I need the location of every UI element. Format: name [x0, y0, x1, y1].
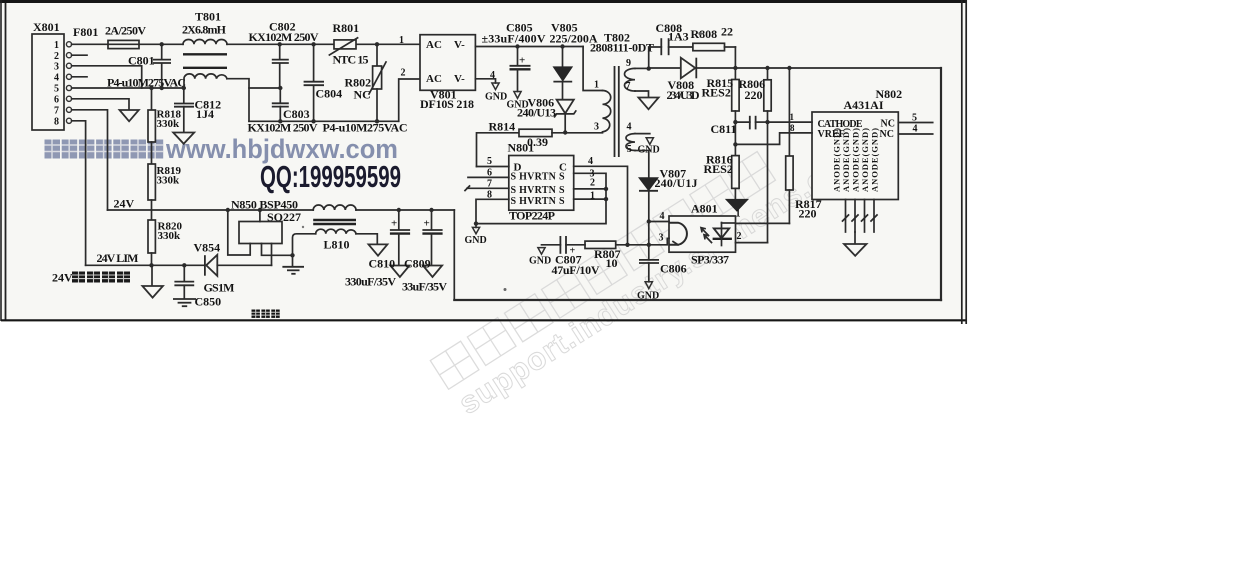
- N801 pin6 stub: [468, 176, 509, 178]
- svg-text:ANODE(GND): ANODE(GND): [841, 128, 851, 192]
- svg-text:24V: 24V: [114, 197, 135, 211]
- svg-text:C810: C810: [369, 257, 396, 271]
- N801 pin4 control wire: [574, 166, 628, 245]
- transformer T802 aux winding: [626, 134, 635, 151]
- svg-text:+: +: [519, 55, 525, 67]
- earth ground N850: [292, 255, 294, 266]
- capacitor C807: [559, 236, 561, 254]
- svg-text:A801: A801: [691, 202, 718, 216]
- svg-text:+: +: [424, 218, 430, 230]
- capacitor C809: [429, 208, 433, 212]
- svg-text:C809: C809: [404, 257, 431, 271]
- small scan specks: [698, 32, 701, 35]
- A801 pin1 wire: [736, 222, 790, 224]
- svg-text:V854: V854: [194, 241, 221, 255]
- ground R816 filled: [726, 199, 748, 211]
- capacitor C801: [161, 44, 163, 59]
- svg-text:4: 4: [490, 70, 495, 81]
- gnd arrow bridge pin4: [492, 83, 499, 90]
- wire pin9: [635, 67, 649, 69]
- V807 wire down to C806: [648, 222, 650, 260]
- X801 pin circles: [66, 42, 71, 124]
- svg-text:2A/250V: 2A/250V: [105, 24, 146, 38]
- svg-text:240/U13: 240/U13: [517, 106, 556, 120]
- svg-text:S HVRTN S: S HVRTN S: [511, 185, 565, 196]
- wire bus to bridge pin2: [399, 79, 420, 121]
- border frame: left double line: [0, 0, 2, 321]
- resistor R820: [148, 220, 155, 253]
- wire pin7: [72, 110, 108, 210]
- wire L810 bottom to gnd: [356, 234, 377, 245]
- transformer T802 core: [614, 66, 616, 157]
- capacitor C808: [660, 38, 662, 55]
- svg-text:24V: 24V: [52, 271, 73, 285]
- ground below LIM: [151, 265, 153, 286]
- capacitor C811: [735, 121, 749, 123]
- svg-text:7: 7: [54, 106, 59, 117]
- svg-text:8: 8: [54, 117, 59, 128]
- resistor R815: [734, 68, 736, 80]
- svg-text:2: 2: [54, 51, 59, 62]
- resistor R808: [693, 43, 725, 50]
- svg-text:ANODE(GND): ANODE(GND): [860, 128, 870, 192]
- svg-text:F801: F801: [73, 25, 98, 39]
- svg-text:+: +: [391, 218, 397, 230]
- A801 light arrows: [701, 228, 709, 236]
- wire aux pin5 down: [635, 150, 649, 152]
- ground N802: [854, 232, 856, 244]
- svg-text:C850: C850: [195, 295, 222, 309]
- svg-text:4: 4: [588, 156, 593, 167]
- MOSFET module N850: [239, 222, 282, 244]
- svg-text:AC: AC: [426, 73, 442, 85]
- inductor L810 top winding: [313, 205, 356, 210]
- capacitor C812: [183, 88, 185, 103]
- wire pin1 to fuse: [72, 43, 108, 45]
- wire pin6: [72, 99, 129, 110]
- resistor R818: [151, 88, 153, 110]
- svg-text:330k: 330k: [158, 230, 182, 242]
- svg-text:T801: T801: [195, 10, 221, 24]
- svg-text:X801: X801: [33, 20, 60, 34]
- node R818 top: [149, 86, 153, 90]
- N850 top pin: [259, 210, 261, 222]
- svg-text:GND: GND: [485, 92, 507, 103]
- wire R819-R820 crossing 24V rail: [151, 200, 153, 220]
- wire pin3: [72, 66, 142, 88]
- svg-text:DF10S 218: DF10S 218: [420, 97, 474, 111]
- svg-text:R814: R814: [489, 120, 516, 134]
- N801 pin7 stub: [467, 187, 509, 189]
- wire bridge V- bottom to GND stub: [475, 79, 495, 83]
- svg-text:5: 5: [487, 156, 492, 167]
- svg-text:C806: C806: [660, 262, 687, 276]
- blue watermark: chinese chars 湖北家电维修网: [45, 140, 164, 159]
- svg-text:C811: C811: [711, 122, 737, 136]
- wire T801 out to step: [227, 79, 249, 122]
- svg-text:RES2: RES2: [702, 86, 731, 100]
- svg-text:1: 1: [594, 80, 599, 91]
- ground C812: [173, 133, 194, 144]
- N850 right pin jog: [262, 244, 293, 256]
- connector X801: [32, 34, 64, 130]
- svg-text:47uF/10V: 47uF/10V: [552, 263, 600, 277]
- wire aux pin4 to gnd arrow: [635, 133, 650, 135]
- choke T801 core bars: [183, 53, 227, 55]
- N802 vref jog wire: [735, 133, 812, 145]
- svg-text:4: 4: [913, 124, 918, 135]
- bottom bus: [454, 299, 941, 301]
- svg-text:8: 8: [790, 123, 795, 133]
- 24V LIM rail: [86, 264, 205, 266]
- svg-text:5: 5: [912, 113, 917, 124]
- wire top line corner to primary pin1: [583, 47, 602, 91]
- svg-text:7: 7: [626, 81, 631, 92]
- svg-text:220: 220: [745, 88, 763, 102]
- capacitor C802: [278, 42, 282, 46]
- svg-text:1: 1: [590, 191, 595, 202]
- svg-text:1: 1: [399, 35, 404, 46]
- wire R820 to LIM rail: [151, 253, 153, 265]
- choke T801 top winding: [183, 40, 227, 45]
- right rail down: [940, 68, 942, 300]
- svg-text:330k: 330k: [157, 175, 181, 187]
- wire R818-R819: [151, 142, 153, 164]
- wire pin2 stub: [72, 54, 87, 56]
- svg-text:330uF/35V: 330uF/35V: [345, 275, 396, 289]
- svg-text:N801: N801: [508, 141, 535, 155]
- svg-text:QQ:199959599: QQ:199959599: [260, 159, 401, 194]
- N801 pin1 wire: [574, 198, 606, 200]
- svg-text:4: 4: [660, 211, 665, 222]
- resistor R807: [585, 241, 616, 248]
- svg-text:4: 4: [627, 122, 632, 133]
- X801 pin numbers 1-8: [54, 40, 59, 128]
- N802 pin1 cathode wire: [768, 121, 813, 123]
- border frame: right double line: [961, 0, 963, 324]
- paper background of scanned schematic: [0, 0, 967, 322]
- svg-text:NC: NC: [880, 129, 894, 140]
- capacitor C810: [397, 208, 401, 212]
- svg-text:AC: AC: [426, 39, 442, 51]
- capacitor C806: [639, 259, 659, 261]
- resistor R817: [788, 68, 790, 156]
- capacitor C850: [182, 263, 186, 267]
- N801 pin8 wire to gnd node: [476, 199, 509, 223]
- svg-text:1: 1: [790, 112, 795, 122]
- svg-text:KX102M 250V: KX102M 250V: [248, 121, 318, 135]
- IC N802 A431AI: [812, 112, 898, 200]
- svg-text:NC: NC: [354, 88, 371, 102]
- board name label: [252, 310, 280, 318]
- svg-text:RES2: RES2: [704, 162, 733, 176]
- N801 pin2 wire: [574, 188, 606, 190]
- svg-text:C803: C803: [283, 107, 310, 121]
- wire pin8: [72, 121, 86, 265]
- border frame: bottom line: [1, 319, 967, 321]
- svg-text:S HVRTN S: S HVRTN S: [511, 172, 565, 183]
- node R807 line: [625, 243, 629, 247]
- resistor R819: [148, 164, 155, 200]
- svg-text:L810: L810: [324, 238, 350, 252]
- A801 pin4 wire: [649, 221, 669, 223]
- svg-text:2: 2: [590, 178, 595, 189]
- svg-text:33uF/35V: 33uF/35V: [402, 280, 447, 294]
- svg-text:NC: NC: [881, 119, 895, 130]
- svg-text:P4-u10M275VAC: P4-u10M275VAC: [323, 121, 408, 135]
- wire pin7 to ground: [635, 91, 649, 98]
- wire pin4 stub: [72, 76, 87, 78]
- svg-text:234/U3D: 234/U3D: [667, 88, 700, 102]
- svg-text:TOP224P: TOP224P: [509, 209, 555, 223]
- svg-text:2: 2: [737, 231, 742, 242]
- choke T801 bottom winding: [184, 74, 227, 88]
- svg-text:R808: R808: [691, 27, 718, 41]
- LIM rail up to N850: [271, 244, 273, 266]
- A801 pin2 wire: [736, 242, 768, 244]
- resistor R806: [767, 68, 769, 80]
- svg-text:±33uF/400V: ±33uF/400V: [482, 32, 546, 46]
- svg-text:1J4: 1J4: [196, 107, 214, 121]
- svg-text:GND: GND: [465, 235, 487, 246]
- A801 pin3 wire with step: [616, 238, 669, 245]
- svg-text:3: 3: [594, 122, 599, 133]
- diode V805: [560, 44, 564, 48]
- A801 phototransistor: [670, 223, 687, 245]
- svg-text:240/U1J: 240/U1J: [655, 176, 698, 190]
- wire L810 bottom left hook: [293, 234, 316, 256]
- N801 source bus wire: [476, 173, 606, 223]
- svg-text:5: 5: [627, 144, 632, 155]
- svg-text:KX102M 250V: KX102M 250V: [249, 30, 319, 44]
- resistor R814: [477, 133, 520, 167]
- svg-text:9: 9: [626, 58, 631, 69]
- svg-text:3: 3: [659, 233, 664, 244]
- svg-text:3: 3: [54, 62, 59, 73]
- thermistor R801 NTC: [334, 40, 356, 49]
- wire fuse to T801: [139, 43, 183, 45]
- svg-text:R801: R801: [333, 21, 360, 35]
- svg-text:4: 4: [54, 73, 59, 84]
- svg-text:1: 1: [54, 40, 59, 51]
- A801 led: [714, 228, 729, 238]
- svg-text:10: 10: [606, 256, 618, 270]
- svg-text:2X6.8mH: 2X6.8mH: [182, 23, 227, 37]
- N802 right NC stubs: [898, 122, 932, 124]
- border frame: top bar: [0, 0, 967, 3]
- bridge rectifier V801: [420, 35, 475, 91]
- diagonal gray watermark band: [430, 103, 873, 423]
- svg-text:ANODE(GND): ANODE(GND): [870, 128, 880, 192]
- main output line to right rail: [696, 67, 941, 69]
- transformer T802 top secondary winding: [625, 68, 636, 91]
- svg-text:1A3: 1A3: [668, 30, 689, 44]
- N801 pin5 wire: [477, 166, 509, 168]
- svg-text:220: 220: [799, 207, 817, 221]
- svg-text:22: 22: [721, 25, 733, 39]
- svg-text:V-: V-: [454, 39, 465, 51]
- capacitor C805: [515, 44, 519, 48]
- wire rail after L810: [356, 209, 454, 211]
- zener V806: [557, 100, 574, 114]
- wire pin5 neutral line: [72, 87, 184, 89]
- IC N801 TOP224P: [509, 156, 574, 211]
- svg-text:6: 6: [54, 95, 59, 106]
- svg-text:7: 7: [487, 179, 492, 190]
- wire stub to C802 bottom: [249, 87, 281, 89]
- ground pin6: [120, 110, 139, 121]
- svg-text:GS1M: GS1M: [204, 281, 235, 295]
- svg-text:2: 2: [401, 68, 406, 79]
- transformer T802 primary winding: [603, 91, 611, 132]
- svg-text:24V LIM: 24V LIM: [97, 251, 139, 265]
- svg-text:S HVRTN S: S HVRTN S: [511, 196, 565, 207]
- svg-text:5: 5: [54, 84, 59, 95]
- capacitor C803: [279, 88, 281, 103]
- ground T802 pin7: [638, 98, 658, 110]
- svg-text:GND: GND: [529, 256, 551, 267]
- svg-text:2808111-0DT: 2808111-0DT: [590, 41, 654, 55]
- output rail corner down to bus: [453, 210, 455, 300]
- varistor R802: [375, 42, 379, 46]
- svg-text:ANODE(GND): ANODE(GND): [851, 128, 861, 192]
- snubber wire up from pin9 node: [649, 47, 662, 69]
- svg-text:SP3/337: SP3/337: [691, 253, 729, 267]
- N850 left pin jog: [228, 210, 250, 255]
- earth ground C850: [173, 298, 196, 300]
- zener V807: [639, 178, 658, 191]
- inductor L810 bottom winding: [316, 229, 356, 234]
- capacitor C804: [311, 42, 315, 46]
- svg-text:C804: C804: [316, 87, 343, 101]
- svg-text:A431AI: A431AI: [844, 98, 884, 112]
- wire bridge V- top output: [475, 46, 583, 48]
- svg-text:C801: C801: [128, 54, 155, 68]
- optocoupler A801: [669, 216, 736, 252]
- svg-text:6: 6: [487, 168, 492, 179]
- svg-text:SO227: SO227: [267, 210, 301, 224]
- N802 bottom anode pins: [845, 200, 847, 233]
- svg-text:P4-u10M275VAC: P4-u10M275VAC: [107, 76, 186, 90]
- svg-text:8: 8: [487, 190, 492, 201]
- bottom neutral bus: [249, 120, 399, 122]
- node C812: [182, 86, 186, 90]
- svg-text:ANODE(GND): ANODE(GND): [832, 128, 842, 192]
- svg-text:NTC 15: NTC 15: [333, 53, 369, 67]
- fuse F801: [108, 40, 139, 48]
- svg-text:1: 1: [736, 209, 741, 220]
- diode V808: [649, 67, 681, 69]
- inductor L810 core: [313, 219, 356, 221]
- svg-text:V-: V-: [454, 73, 465, 85]
- wire top line T801 to bridge: [227, 43, 334, 45]
- resistor R816: [734, 122, 736, 156]
- node C801 top: [160, 42, 164, 46]
- 24V rail: [108, 209, 314, 211]
- N802 rotated ANODE(GND) pins text: [832, 128, 880, 192]
- svg-text:330k: 330k: [157, 118, 181, 130]
